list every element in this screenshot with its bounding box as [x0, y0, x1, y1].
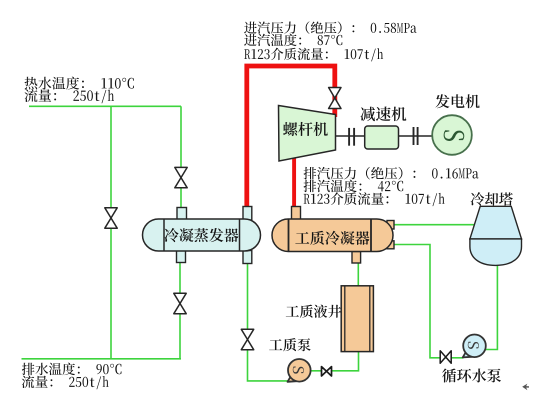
label: 循环水泵: [442, 369, 501, 383]
label: 排水温度：90℃: [22, 363, 122, 376]
circulating water pump 循环水泵 body: [463, 335, 486, 358]
valve V4 on R123 feed: [241, 329, 253, 349]
circulating pump symbol: [468, 342, 479, 349]
evaporator head seam right: [239, 219, 241, 251]
label: 流量：250t/h (bottom): [22, 375, 109, 389]
condenser stub right-bottom: [387, 241, 394, 249]
label: R123介质流量：107t/h (outlet): [304, 192, 445, 206]
label: 排汽压力（绝压）：0.16MPa: [304, 167, 479, 180]
label: 排汽温度：42℃: [304, 180, 404, 193]
black valve before circulating pump: [440, 351, 451, 363]
wire: hot water supply header: [29, 105, 181, 107]
condenser shell 工质冷凝器: [272, 219, 393, 252]
evaporator nozzle bottom-right: [243, 251, 252, 264]
label: 进汽压力（绝压）：0.58MPa: [244, 21, 416, 33]
cooling tower upper (trapezoid): [470, 206, 522, 239]
condenser head seam left: [288, 219, 290, 252]
evaporator head seam left: [163, 219, 165, 251]
label: 减速机: [360, 107, 406, 122]
tank inner line left: [344, 286, 346, 352]
shaft line: [336, 135, 433, 137]
evaporator nozzle bottom-left: [177, 251, 186, 263]
wire: condenser to cooling tower top: [394, 224, 475, 226]
screw expander body (trapezoid): [279, 106, 336, 162]
label: 冷凝蒸发器: [164, 228, 238, 242]
liquid well tank 工质液井: [341, 286, 373, 352]
valve V5 on steam line: [329, 88, 341, 109]
wire: condenser drain to liquid well: [357, 263, 359, 287]
label: 工质液井: [286, 305, 341, 318]
label: 工质泵: [269, 338, 311, 351]
wire: pump discharge to liquid well: [311, 352, 359, 371]
wire: hot water feed drop to evaporator: [180, 106, 182, 208]
condenser head seam right: [370, 219, 372, 252]
label: 热水温度：110℃: [24, 77, 133, 90]
working fluid pump symbol: [293, 367, 304, 374]
label: 螺杆机: [283, 122, 328, 136]
wire: hot water return header: [22, 358, 182, 360]
wire: exhaust steam line (expander to condenser): [292, 159, 296, 208]
label: R123介质流量：107t/h (inlet): [244, 48, 383, 62]
condenser nozzle top-left: [292, 207, 301, 221]
valve V2 on evaporator feed: [175, 167, 187, 187]
label: 进汽温度：87℃: [244, 34, 342, 46]
generator AC symbol: [444, 130, 465, 141]
coupling 1: [349, 128, 354, 146]
wire: main steam line (evaporator to screw expander): [247, 66, 335, 208]
condenser nozzle bottom: [352, 252, 361, 264]
evaporator nozzle top-left: [177, 208, 187, 221]
evaporator nozzle top-right: [243, 207, 252, 221]
tank inner line right: [369, 286, 371, 352]
label: 发电机: [435, 94, 479, 108]
condenser stub right-top: [387, 221, 394, 230]
label: 工质冷凝器: [295, 231, 369, 245]
small arrow marker: [522, 384, 529, 391]
wire: evaporator hot-water outlet drop: [179, 263, 181, 359]
wire: condenser cooling-water return run: [394, 245, 464, 358]
coupling 2: [414, 127, 418, 145]
valve V1 on bypass: [105, 208, 117, 228]
black valve at liquid well outlet: [322, 367, 332, 376]
working fluid pump 工质泵 body: [288, 359, 311, 382]
valve V3 on evaporator outlet: [174, 293, 186, 313]
wire: R123 feed from pump to evaporator: [248, 264, 290, 381]
cooling tower basin (bowl): [470, 239, 522, 266]
label: 流量：250t/h (top): [25, 89, 114, 103]
label: 冷却塔: [471, 192, 513, 205]
wire: hot water bypass drop: [110, 106, 112, 359]
gearbox 减速机 box: [365, 126, 399, 149]
generator circle: [432, 115, 472, 155]
wire: cooling tower outlet to circulating pump: [486, 264, 498, 350]
evaporator shell 冷凝蒸发器: [143, 219, 261, 251]
